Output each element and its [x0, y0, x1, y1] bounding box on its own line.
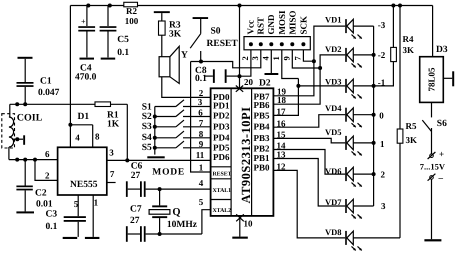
capacitor C8: [195, 66, 240, 84]
svg-text:PD2: PD2: [213, 111, 230, 121]
svg-text:PD5: PD5: [213, 143, 230, 153]
wire pin13 to VD7: [273, 159, 345, 207]
svg-text:2: 2: [240, 56, 250, 60]
svg-text:3K: 3K: [169, 30, 182, 40]
connector pin numbers: [240, 56, 303, 61]
svg-text:R5: R5: [406, 121, 417, 131]
ground power input: [424, 239, 441, 241]
svg-text:S6: S6: [437, 119, 447, 129]
svg-text:C7: C7: [130, 204, 142, 214]
svg-text:+: +: [81, 17, 86, 26]
svg-text:C3: C3: [46, 209, 58, 219]
svg-text:10MHz: 10MHz: [167, 220, 198, 230]
svg-text:4: 4: [75, 132, 80, 142]
svg-text:R4: R4: [403, 34, 414, 44]
svg-text:1: 1: [94, 197, 99, 207]
svg-text:SCK: SCK: [298, 16, 308, 35]
capacitor C3: [46, 195, 86, 237]
svg-text:1: 1: [271, 56, 281, 60]
wire XTAL1 junction: [158, 187, 162, 191]
wire NE555 pin7 stub: [107, 182, 116, 184]
svg-text:PB5: PB5: [254, 110, 271, 120]
LED VD3: [325, 76, 374, 98]
svg-text:Vcc: Vcc: [246, 20, 256, 35]
svg-text:0.047: 0.047: [38, 88, 60, 98]
coil L1: [2, 104, 43, 159]
svg-text:8: 8: [199, 129, 204, 139]
ground switch bus: [147, 156, 164, 158]
svg-text:-2: -2: [378, 50, 386, 60]
svg-text:PB3: PB3: [254, 133, 271, 143]
op-amp U1 NE555: [58, 147, 107, 195]
LED VD6: [325, 166, 374, 187]
power input plugs 7...15V: [420, 149, 446, 239]
svg-text:27: 27: [130, 216, 140, 226]
svg-text:PB0: PB0: [254, 163, 271, 173]
chip D2 left pin numbers: [196, 88, 205, 207]
svg-text:MOSI: MOSI: [277, 10, 287, 35]
svg-text:VD7: VD7: [325, 197, 342, 207]
wire NE555 pin2 tie: [35, 160, 58, 181]
chip D2 pin name labels: [213, 92, 270, 173]
svg-text:S0: S0: [211, 27, 221, 37]
crystal Q 10MHz: [149, 189, 198, 234]
svg-text:GND: GND: [266, 14, 276, 35]
wire NE555 pin3 output to PD6: [107, 158, 211, 162]
svg-text:8: 8: [95, 132, 100, 142]
wire pin12 to VD8: [273, 170, 345, 238]
svg-text:COIL: COIL: [17, 112, 43, 123]
wire pin14 to VD6: [273, 150, 345, 175]
wire pin15 to VD5: [273, 138, 345, 143]
ground chip pin10: [232, 237, 248, 239]
svg-text:7: 7: [110, 169, 115, 179]
chip D2 right pin numbers: [277, 87, 287, 172]
wire pin17 MOSI vertical: [273, 79, 300, 116]
svg-text:7: 7: [199, 118, 204, 128]
svg-text:5: 5: [199, 197, 204, 207]
svg-text:100: 100: [125, 16, 139, 26]
svg-text:VD8: VD8: [325, 227, 342, 237]
svg-text:VD5: VD5: [325, 127, 342, 137]
LED VD1: [325, 15, 374, 39]
resistor R4: [374, 6, 414, 86]
svg-text:XTAL2: XTAL2: [213, 208, 232, 214]
capacitor C7: [126, 204, 202, 242]
svg-text:VD2: VD2: [325, 44, 342, 54]
svg-text:0: 0: [379, 110, 384, 120]
svg-text:D1: D1: [78, 112, 90, 122]
svg-text:PD1: PD1: [213, 101, 230, 111]
wire connector MOSI: [282, 50, 299, 79]
svg-text:10: 10: [244, 219, 254, 229]
svg-text:–: –: [438, 173, 444, 183]
svg-text:D2: D2: [259, 79, 271, 89]
speaker Y: [159, 46, 211, 97]
ground NE555 pin1: [85, 237, 100, 239]
svg-text:C5: C5: [117, 35, 129, 45]
resistor R5: [397, 6, 417, 238]
svg-text:3K: 3K: [406, 135, 418, 145]
wire LED bus: [372, 26, 376, 206]
capacitor C2: [16, 160, 52, 214]
wire pin18 to VD2: [273, 55, 345, 104]
capacitor C1: [17, 57, 60, 105]
wire pin19 to VD1: [273, 26, 345, 96]
svg-text:S2: S2: [142, 112, 152, 122]
svg-text:PB6: PB6: [254, 100, 271, 110]
svg-text:PB2: PB2: [254, 143, 271, 153]
svg-text:C1: C1: [40, 76, 52, 86]
ground connector: [265, 73, 279, 75]
X mark pin10: [236, 214, 244, 221]
svg-text:AT90S2313-10PI: AT90S2313-10PI: [239, 106, 253, 203]
svg-text:1: 1: [199, 163, 204, 173]
svg-text:6: 6: [45, 149, 50, 159]
svg-text:Q: Q: [172, 207, 180, 218]
svg-text:Y: Y: [181, 51, 188, 61]
svg-text:9: 9: [282, 56, 292, 60]
resistor R1: [95, 102, 120, 130]
svg-text:6: 6: [198, 108, 203, 118]
svg-text:0.1: 0.1: [117, 48, 129, 58]
svg-text:XTAL1: XTAL1: [213, 188, 232, 194]
wire XTAL2 route: [158, 210, 211, 236]
svg-text:9: 9: [199, 139, 204, 149]
svg-text:470.0: 470.0: [75, 73, 97, 83]
svg-text:PD4: PD4: [213, 133, 230, 143]
svg-text:-3: -3: [378, 20, 386, 30]
connector X1 ISP: [244, 37, 310, 50]
svg-text:D3: D3: [436, 45, 448, 55]
svg-text:20: 20: [244, 77, 254, 87]
chip D2 AT90S2313: [211, 77, 274, 229]
svg-text:1: 1: [380, 139, 385, 149]
svg-text:VD1: VD1: [325, 15, 342, 25]
svg-text:1K: 1K: [107, 120, 120, 130]
svg-text:11: 11: [196, 150, 205, 160]
capacitor C5: [100, 6, 130, 60]
svg-text:27: 27: [131, 171, 141, 181]
svg-text:NE555: NE555: [70, 180, 98, 190]
svg-text:7...15V: 7...15V: [420, 162, 446, 172]
svg-text:PB4: PB4: [254, 122, 271, 132]
svg-text:VD4: VD4: [325, 103, 342, 113]
svg-text:2: 2: [381, 170, 386, 180]
voltage regulator D3 78L05: [420, 6, 455, 103]
LED VD5: [325, 127, 374, 155]
svg-text:VD6: VD6: [325, 166, 342, 176]
wire connector MISO: [292, 50, 322, 70]
svg-text:0.1: 0.1: [46, 222, 58, 232]
svg-text:S3: S3: [142, 122, 152, 132]
svg-text:3: 3: [109, 148, 114, 158]
wire oscillator input net: [10, 102, 128, 160]
LED VD8: [325, 227, 400, 251]
svg-text:C2: C2: [35, 188, 47, 198]
svg-text:S4: S4: [142, 133, 152, 143]
svg-text:C6: C6: [131, 162, 143, 172]
wire connector Vcc: [240, 50, 251, 76]
wire chip pin10 ground: [239, 216, 241, 237]
capacitor C4: [75, 6, 97, 83]
svg-text:PD3: PD3: [213, 122, 230, 132]
wire chip pin1 RESET: [191, 62, 211, 173]
svg-text:RESET: RESET: [213, 172, 232, 178]
resistor R3 with supply bar: [154, 11, 182, 57]
svg-text:18: 18: [277, 95, 287, 105]
capacitor C6: [126, 162, 211, 197]
wire VD3 row: [298, 85, 345, 87]
svg-text:2: 2: [45, 170, 50, 180]
svg-text:MISO: MISO: [287, 10, 297, 34]
X mark pin20: [236, 86, 243, 92]
wire chip pin20 Vcc drop: [238, 6, 242, 89]
svg-text:MODE: MODE: [152, 168, 185, 178]
LED VD7: [325, 197, 374, 218]
switches S1-S5: [142, 100, 211, 155]
svg-text:RESET: RESET: [207, 39, 239, 49]
svg-text:RST: RST: [256, 17, 266, 35]
wire NE555 pin6 net: [9, 158, 58, 162]
wire connector RST: [191, 50, 261, 68]
wire Vcc top rail: [70, 4, 432, 8]
svg-text:0.01: 0.01: [36, 199, 53, 209]
svg-text:R2: R2: [126, 6, 137, 16]
LED VD2: [325, 44, 374, 67]
LED VD4: [325, 103, 374, 127]
switch S0 with supply bar: [190, 17, 238, 61]
wire pin16 to VD4: [273, 115, 345, 128]
resistor R2: [124, 2, 139, 26]
svg-text:4: 4: [199, 178, 204, 188]
svg-text:PD6: PD6: [213, 152, 230, 162]
svg-text:3: 3: [198, 97, 203, 107]
ground C3: [63, 237, 77, 239]
svg-text:VD3: VD3: [325, 76, 342, 86]
wire NE555 pin1 to ground: [92, 195, 94, 237]
svg-text:3K: 3K: [403, 45, 415, 55]
node labels -3..3: [378, 20, 386, 211]
svg-text:S5: S5: [142, 143, 152, 153]
wire connector GND: [270, 50, 272, 73]
switch S6: [422, 102, 447, 153]
svg-text:+: +: [439, 149, 444, 159]
connector pin labels: [246, 10, 309, 35]
wire connector SCK: [303, 50, 316, 63]
svg-text:3: 3: [381, 201, 386, 211]
wire NE555 power pins 4,8: [68, 6, 100, 148]
svg-text:78L05: 78L05: [427, 67, 437, 92]
svg-text:PB1: PB1: [254, 153, 271, 163]
